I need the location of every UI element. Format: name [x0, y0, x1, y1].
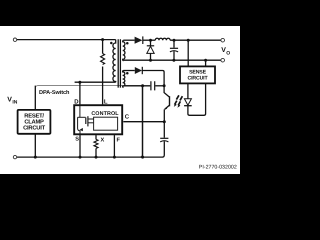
- optocoupler light arrows: [175, 95, 179, 104]
- node: F pin on bottom rail: [113, 156, 116, 159]
- wire: X pin lower lead: [95, 148, 97, 157]
- node: output cap top: [173, 39, 176, 42]
- node: D junction: [78, 81, 81, 84]
- wire: F pin lead: [113, 135, 115, 157]
- diode D1 output rectifier: [135, 37, 143, 44]
- node: sense tap top rail: [187, 39, 190, 42]
- control inner block: [94, 117, 118, 130]
- wire: bias return to bottom rail: [142, 86, 144, 157]
- node: freewheel bottom: [149, 59, 152, 62]
- wire: sense box left riser from top rail: [187, 40, 189, 66]
- node: bias return junction: [141, 84, 144, 87]
- wire: D node horizontal: [75, 81, 116, 83]
- transformer T1 primary winding: [113, 40, 116, 83]
- wire: X pin upper lead: [95, 135, 97, 139]
- transformer bias winding: [123, 71, 125, 88]
- wire: L-pin sense drop upper: [102, 40, 104, 54]
- node: top rail / L-resistor junction: [101, 38, 104, 41]
- node: bias return on bottom rail: [141, 156, 144, 159]
- wire: top input rail: [17, 39, 116, 41]
- svg-text:CIRCUIT: CIRCUIT: [188, 76, 209, 82]
- node: C pin junction: [163, 120, 166, 123]
- inductor L1: [155, 38, 170, 40]
- wire: secondary top to rectifier: [124, 39, 135, 41]
- svg-text:L: L: [104, 98, 108, 105]
- input terminal bottom: [13, 155, 16, 158]
- node: clamp wire on bottom rail: [34, 156, 37, 159]
- capacitor C3 control pin electrolytic: [163, 122, 165, 138]
- bias phase dot: [126, 72, 129, 75]
- transformer core: [118, 39, 120, 87]
- svg-text:F: F: [117, 138, 121, 144]
- emitter arrowhead: [165, 107, 168, 109]
- DPA-Switch U1 control box: [74, 105, 122, 135]
- svg-text:S: S: [75, 137, 79, 143]
- svg-text:IN: IN: [12, 100, 17, 106]
- wire: rectifier to inductor: [143, 39, 156, 41]
- reset/clamp circuit box: [18, 110, 51, 134]
- sense circuit box: [180, 66, 215, 83]
- wire: D pin lead: [79, 82, 81, 104]
- wire: cap to collector node: [155, 85, 164, 87]
- wire: S pin lead: [79, 135, 81, 157]
- wire: bias rail to riser: [142, 71, 164, 86]
- MOSFET Q1 internal: [78, 105, 94, 135]
- input terminal top: [13, 38, 16, 41]
- wire: inductor to output terminal: [170, 39, 221, 41]
- wire: L-pin sense drop lower to L pin: [102, 67, 104, 105]
- capacitor C1 output electrolytic: [173, 40, 175, 48]
- resistor R2 (X pin): [94, 139, 98, 148]
- diode D2 freewheel: [150, 40, 152, 45]
- node: sense box right riser: [204, 59, 207, 62]
- transformer secondary winding (output): [123, 40, 125, 61]
- output terminal VO+: [221, 38, 225, 42]
- wire: sense box right riser: [205, 60, 207, 66]
- secondary phase dot: [126, 42, 129, 45]
- wire: bottom input rail: [17, 156, 163, 158]
- node: bias+/collector junction: [163, 84, 166, 87]
- capacitor C2 bias filter: [151, 81, 155, 90]
- svg-text:CONTROL: CONTROL: [91, 111, 119, 117]
- wire: bias winding top: [124, 70, 135, 72]
- svg-text:O: O: [226, 50, 230, 56]
- optocoupler LED: [187, 84, 189, 99]
- svg-text:X: X: [101, 138, 105, 144]
- svg-text:DPA-Switch: DPA-Switch: [39, 89, 70, 96]
- primary phase dot: [110, 42, 113, 45]
- svg-text:C: C: [125, 114, 130, 121]
- optocoupler U2 phototransistor: [164, 86, 169, 97]
- wire: bias winding bottom: [124, 85, 151, 87]
- output terminal VO-: [221, 58, 225, 62]
- node: X pin on bottom rail: [95, 156, 98, 159]
- diode D3 bias rectifier: [135, 67, 142, 74]
- svg-text:PI-2770-032002: PI-2770-032002: [199, 165, 237, 171]
- node: S pin on bottom rail: [79, 156, 82, 159]
- wire: clamp lower lead: [34, 134, 36, 157]
- svg-text:CIRCUIT: CIRCUIT: [23, 124, 45, 131]
- resistor R1 (L-pin line sense): [101, 54, 105, 65]
- DPA-Switch IC boundary thin rounded box: [35, 86, 142, 158]
- node: output cap bottom: [172, 59, 175, 62]
- wire: C pin to opto emitter: [123, 121, 164, 123]
- wire: output return rail: [124, 59, 221, 61]
- wire: clamp upper lead: [34, 86, 36, 110]
- svg-text:D: D: [74, 98, 79, 105]
- node: freewheel diode top: [149, 39, 152, 42]
